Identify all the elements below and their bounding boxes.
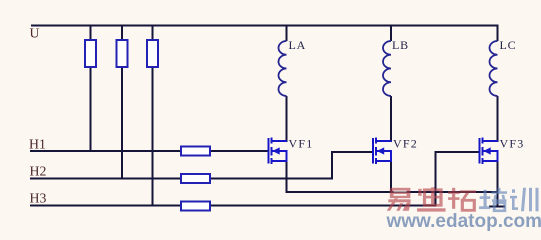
svg-text:LC: LC [500,38,517,52]
svg-text:H3: H3 [30,191,47,206]
svg-text:U: U [30,26,40,41]
svg-text:H2: H2 [30,164,47,179]
svg-text:LB: LB [392,38,409,52]
svg-text:H1: H1 [29,137,46,152]
svg-text:LA: LA [289,38,307,52]
svg-text:VF2: VF2 [393,137,418,151]
svg-text:VF1: VF1 [289,137,314,151]
svg-text:www.edatop.com: www.edatop.com [386,211,541,232]
svg-text:VF3: VF3 [500,137,525,151]
